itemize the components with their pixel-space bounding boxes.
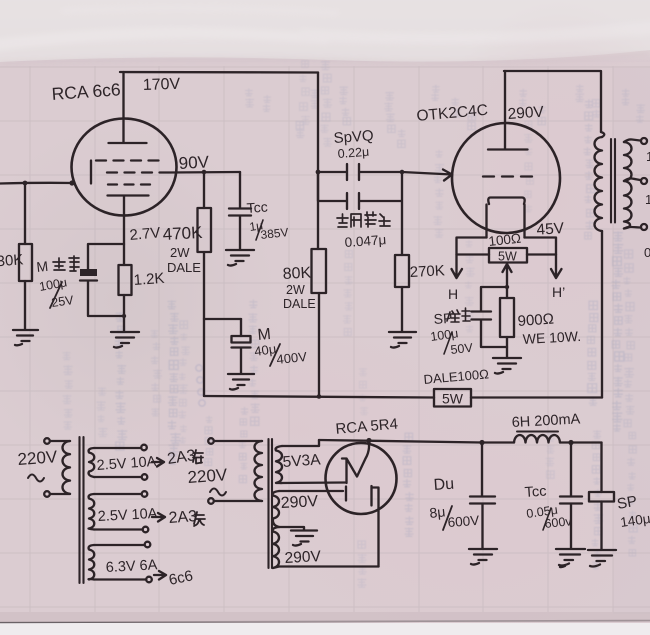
wire 290V top to 5R4 plate [279,490,343,492]
capacitor Tcc 0.05u/600V [560,443,582,549]
svg-text:290V: 290V [280,493,319,512]
node 80K bottom [317,394,322,399]
label guding laqin pseudoglyphs [337,212,390,227]
svg-text:2.7V: 2.7V [129,224,161,244]
svg-text:470K: 470K [162,223,203,244]
transformer T1 core [80,437,84,583]
wire 290V bottom [279,565,379,567]
capacitor SP low 100u/50V branch [472,287,508,347]
wire B+ drop to coupling node [317,73,319,173]
U1 grid dashes [90,161,92,184]
svg-text:50V: 50V [450,341,474,357]
transformer OPT primary [601,132,604,137]
label Du 8u/600V [429,476,480,530]
label sine T2 [210,489,226,496]
ground below 270K [389,332,416,348]
wire grid lead to 2C4C with arrow [402,170,452,181]
svg-text:290V: 290V [284,548,322,567]
OPT tap 15 [624,139,640,142]
node input junction [23,181,28,186]
capacitor M paper 100u/25V [88,244,124,269]
svg-text:2.5V 10A: 2.5V 10A [97,506,158,525]
bottom scan edge [0,623,650,635]
svg-text:290V: 290V [507,103,545,123]
ground below M 40u [228,374,254,390]
transformer T2 primary terminal bottom [208,498,214,504]
U3 plate left [345,487,347,501]
svg-text:2W: 2W [286,283,305,297]
capacitor M 40u/400V [240,319,242,336]
capacitor Tcc 1u/385V [229,172,251,249]
svg-text:400V: 400V [276,349,308,367]
transformer T1 primary terminal top [44,438,50,444]
label arrow to 2A3 right [152,513,165,522]
svg-text:220V: 220V [17,447,59,469]
pseudoglyph zhitong label (paper-tube) [53,256,79,271]
svg-text:2W: 2W [170,245,190,260]
wire SP drop [600,443,602,493]
tube U2 OTK 2C4C envelope [452,123,560,233]
node 5R4 cathode junction [366,438,371,443]
resistor DALE 100ohm 5W [434,389,471,407]
wire filament left to H [452,238,487,279]
capacitor Du 8u/600V [470,443,495,549]
label sine T1 [28,475,44,482]
svg-text:5W: 5W [498,250,517,264]
label SpVQ 0.22u [333,127,374,161]
wire centre tap to ground [279,527,304,530]
svg-text:Du: Du [433,476,455,494]
wire 5V bottom to 5R4 filament [280,481,345,484]
inductor choke 6H 200mA [517,431,558,433]
wire input line [0,182,73,185]
svg-text:SP: SP [616,493,639,513]
label 100u/50V [429,326,474,357]
U2 grid dashes [483,175,536,177]
U3 plate right [372,486,379,567]
svg-text:DALE: DALE [167,260,201,275]
svg-text:15: 15 [646,149,650,164]
OPT tap 10 [624,178,640,181]
label SP 140u [616,493,650,530]
transformer T1 primary terminal bottom [44,491,50,497]
ground below SP [588,550,616,567]
label 80K 2W DALE [282,265,315,311]
label Tcc 0.05u/600v [524,484,573,531]
node Du tap [479,440,484,445]
node coupling left [316,170,321,175]
transformer OPT core [611,139,615,223]
node Tcc tap [568,440,573,445]
svg-text:0.047μ: 0.047μ [344,232,387,250]
U2 plate [488,71,528,150]
resistor 900ohm WE 10W [506,287,508,298]
svg-text:Tcc: Tcc [246,199,268,216]
label 470K 2W DALE [162,223,203,275]
bleed-through texture [63,61,645,587]
node wiper junction [505,285,509,289]
wire B+ top line [319,440,602,443]
label 900ohm WE 10W [517,311,581,347]
svg-text:900Ω: 900Ω [517,311,554,330]
wire wiper arrow [503,264,512,287]
svg-text:10: 10 [645,192,650,207]
resistor 470K 2W DALE [203,172,205,208]
transformer T2 core [269,439,273,568]
ground centre tap [291,531,317,546]
svg-text:M: M [36,258,49,275]
ground below 1.2K [111,332,139,348]
wire filament right to H' [525,238,562,279]
resistor 80K 2W DALE [317,172,319,249]
transformer T1 winding 6.3V [89,545,95,580]
tube U1 RCA 6C6 envelope [72,119,177,216]
ground below Tcc [226,250,254,266]
transformer T1 winding 2.5V left [89,448,95,477]
node 470K tap [202,170,207,175]
resistor hum pot 100ohm 5W [489,248,527,263]
svg-text:5V3A: 5V3A [282,451,322,471]
U1 plate [109,72,147,143]
svg-text:90V: 90V [178,152,210,173]
svg-text:170V: 170V [143,76,181,94]
OPT tap 0 [624,227,640,229]
ground below 900ohm [493,358,521,374]
capacitor waxed 0.047u bottom branch [318,172,402,255]
node cathode bottom junction [122,314,126,318]
resistor 270K [395,255,409,287]
transformer T2 primary winding [214,441,262,501]
transformer T1 primary winding [50,441,70,494]
svg-text:5W: 5W [442,391,464,407]
label Tcc 1u/385V [246,199,289,242]
svg-text:WE 10W.: WE 10W. [522,328,581,347]
svg-text:H: H [448,286,458,302]
svg-text:0.22μ: 0.22μ [337,145,369,161]
wire bottom B rail [204,396,602,398]
U3 filament M [342,440,369,483]
wire screen node to M cap [204,318,241,320]
label SP low-box pseudoglyph [433,310,453,327]
label M 40u/400V [253,326,308,367]
svg-text:H’: H’ [552,284,565,300]
ground below 30K [13,330,38,345]
transformer T2 winding 5V3A [276,446,282,483]
transformer T1 winding 2.5V right [89,494,95,530]
svg-text:30K: 30K [0,251,24,270]
transformer T2 winding 290V-0-290V [273,491,279,527]
transformer OPT secondary [624,142,632,229]
svg-text:220V: 220V [187,465,229,487]
transformer T2 primary terminal top [208,438,214,444]
U1 cathode [108,196,149,244]
svg-text:DALE: DALE [283,297,316,311]
label M cap [36,258,75,310]
ground below Du [469,549,497,565]
svg-text:0: 0 [644,245,650,260]
ground below Tcc2 [556,549,585,567]
capacitor SP 140u electrolytic [589,492,614,502]
resistor 30K [24,183,26,244]
resistor 1.2K [123,244,125,265]
svg-text:6.3V 6A: 6.3V 6A [105,557,158,576]
U2 filament [488,198,524,205]
tube U3 RCA 5R4 envelope [326,443,397,514]
svg-text:Tcc: Tcc [524,484,547,501]
svg-text:45V: 45V [536,220,565,239]
label arrow to 6c6 [154,571,166,580]
svg-text:8μ: 8μ [429,503,446,521]
svg-text:600V: 600V [447,513,480,530]
wire 90V screen line [170,171,240,174]
svg-text:80K: 80K [282,265,312,283]
label arrow to 2A3 left [152,458,164,467]
capacitor SpVQ 0.22u top branch [318,164,402,180]
wire 170V plate rail [120,71,318,74]
wire 2C4C B+ rail 290V [504,71,601,132]
svg-text:1.2K: 1.2K [133,270,165,289]
node coupling right [400,170,405,175]
svg-text:270K: 270K [409,262,445,281]
svg-text:385V: 385V [260,225,289,242]
